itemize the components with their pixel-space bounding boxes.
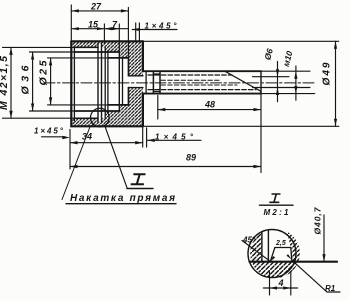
hidden phi6 hole bottom dashed: [148, 89, 256, 91]
cavity end face upper: [127, 58, 129, 76]
svg-text:89: 89: [186, 153, 196, 163]
svg-text:Накатка прямая: Накатка прямая: [70, 193, 175, 204]
chamfer label 1x45 top: [132, 23, 177, 41]
svg-text:М 42×1,5: М 42×1,5: [0, 56, 10, 110]
head right face lower: [142, 94, 144, 127]
m10 dimension: [261, 66, 315, 100]
detail groove root top: [275, 247, 291, 249]
detail hatch below surface line: [246, 262, 298, 280]
phi25 chamfer edge: [122, 58, 124, 105]
phi25 dimension: [48, 58, 108, 105]
hatch top band thread zone: [72, 41, 98, 47]
stem groove root top: [153, 73, 160, 75]
hatch sliver over groove: [98, 41, 102, 44]
dimension 27: [71, 5, 128, 58]
detail thread end wall left: [261, 229, 263, 262]
stem groove left wall: [152, 71, 154, 93]
detail label I glyph: [269, 194, 280, 202]
svg-text:45°: 45°: [242, 236, 256, 245]
svg-text:Ø36: Ø36: [20, 65, 32, 94]
cavity end face lower: [127, 88, 129, 105]
phi25 bore top line: [108, 57, 128, 59]
hatch end wall top: [128, 41, 143, 76]
thread entrance chamfer edge: [73, 47, 75, 121]
phi36 end face: [118, 52, 120, 111]
stem groove root bottom: [153, 91, 160, 93]
hidden phi6 hole top dashed: [148, 74, 232, 76]
phi36 bore top line: [74, 51, 119, 53]
thread major top line: [74, 46, 98, 48]
detail hatch above line left segment: [246, 230, 262, 262]
hatch bottom band phi25 zone: [119, 105, 128, 126]
R1 leader: [292, 260, 341, 292]
phi6 dimension: [253, 62, 311, 102]
dimension 89: [70, 166, 261, 168]
head outline: bottom OD: [71, 125, 143, 127]
svg-text:Ø49: Ø49: [322, 62, 333, 85]
hidden m10 thread bottom dashed: [161, 84, 237, 86]
detail hatch above line right segment: [286, 229, 301, 262]
45deg leader: [242, 241, 270, 262]
detail groove right wall: [290, 248, 293, 260]
svg-text:27: 27: [90, 2, 102, 12]
head outline: top OD: [71, 40, 143, 42]
phi6 hole top line in wall: [128, 75, 143, 77]
stem chamfer edge: [145, 71, 147, 93]
detail thick surface line: [250, 261, 338, 263]
hatch sliver under groove: [98, 122, 102, 126]
hatch top band phi36 zone: [102, 41, 106, 47]
thread undercut groove right wall: [101, 44, 103, 122]
head right face upper: [142, 41, 144, 71]
svg-text:Ø40,7: Ø40,7: [313, 206, 323, 234]
svg-text:4: 4: [278, 278, 284, 288]
stem end face: [260, 71, 262, 93]
detail groove width arrows (2,5): [270, 256, 275, 261]
leader to detail label I: [105, 125, 128, 188]
phi36 dimension: [30, 52, 75, 111]
chamfer label 1x45 bottom-left: [42, 136, 66, 138]
M42x1.5 dimension: [3, 47, 75, 118]
phi49 dimension: [143, 41, 339, 126]
groove width 4 dimension: [263, 272, 297, 295]
stem top line: [143, 70, 261, 72]
phi6 hole bottom line in wall: [128, 87, 143, 89]
svg-text:М2:1: М2:1: [264, 208, 290, 217]
hatch top band phi25 zone: [119, 41, 128, 58]
detail indicator circle: [91, 108, 110, 127]
hatch end wall bottom: [128, 88, 143, 127]
knurling label underline: [66, 203, 176, 205]
phi25 bore bottom line: [108, 104, 128, 106]
label I underline (main view): [127, 188, 153, 190]
hatch bottom band phi36 zone: [102, 118, 106, 126]
phi36 entry chamfer edge: [107, 52, 109, 111]
phi36 bore bottom line: [74, 110, 119, 112]
left extension line (34/89): [69, 130, 71, 170]
main view label I glyph: [131, 174, 146, 184]
thread major bottom line: [74, 117, 98, 119]
svg-text:34: 34: [82, 132, 92, 142]
detail thread end wall right: [267, 229, 269, 262]
shared extension line right (48/89): [260, 91, 262, 173]
detail circle outline: [248, 230, 296, 278]
chamfer label 1x45 bottom-mid extension lines: [143, 128, 201, 147]
centerline of part axis: [44, 82, 316, 84]
stem bottom line: [143, 93, 261, 95]
thread runout diagonal: [225, 71, 261, 91]
svg-text:48: 48: [204, 100, 215, 110]
head left face: [70, 41, 72, 126]
dimension 48: [158, 96, 261, 120]
detail groove left bevel 45deg: [270, 248, 275, 262]
stem groove right wall: [159, 71, 161, 93]
svg-text:R1: R1: [325, 284, 336, 293]
dimension 34: [70, 142, 143, 144]
dimension 15 and 7: [71, 24, 128, 52]
hidden m10 thread top dashed: [161, 79, 219, 81]
thread relief face: [104, 47, 106, 118]
hatch bottom band thread zone: [72, 118, 98, 126]
knurling leader: [62, 127, 90, 200]
detail label I underline and scale: [260, 204, 294, 206]
svg-text:Ø25: Ø25: [38, 60, 50, 85]
thread undercut groove left wall: [97, 44, 99, 122]
phi40.7 dimension line: [323, 215, 325, 262]
svg-text:15: 15: [88, 20, 99, 30]
svg-text:2,5: 2,5: [275, 240, 286, 247]
